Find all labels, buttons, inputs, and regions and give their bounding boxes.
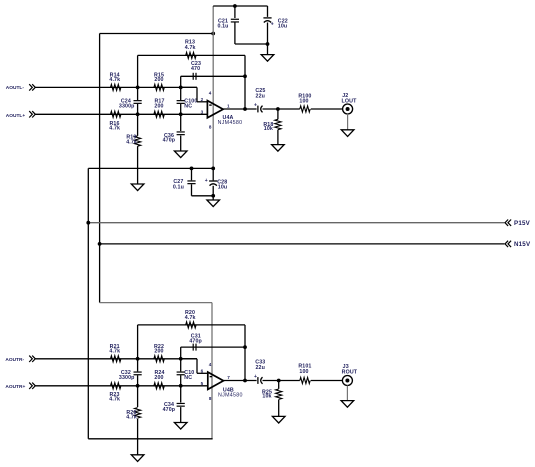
resistor R100: [300, 106, 310, 112]
wire N15V rail: [100, 243, 505, 245]
wire U4A V- rail vertical: [212, 6, 214, 168]
svg-text:2: 2: [201, 97, 204, 102]
wire top rail to N15V: [100, 33, 214, 35]
svg-text:NC: NC: [184, 103, 192, 109]
node D2: [179, 384, 183, 388]
ground C36: [174, 151, 187, 158]
wire J2 ground stub: [347, 114, 349, 130]
resistor R21: [111, 356, 121, 362]
node output feedback: [243, 107, 247, 111]
svg-text:22u: 22u: [256, 93, 266, 99]
node B2: [179, 112, 183, 116]
svg-text:4.7k: 4.7k: [126, 140, 137, 146]
wire pin8 to P15V rail: [88, 167, 213, 169]
node A2: [179, 86, 183, 90]
node R25 tap: [277, 379, 281, 383]
capacitor C100: [180, 87, 182, 100]
svg-text:0.1u: 0.1u: [217, 24, 228, 30]
node feedback C23: [243, 74, 247, 78]
wire pin6 jog: [181, 358, 197, 360]
capacitor C22: [267, 6, 269, 17]
ground J2: [341, 130, 354, 137]
wire C31 feedback: [180, 347, 182, 359]
node C1: [136, 357, 140, 361]
wire U4B output: [224, 380, 257, 382]
svg-text:7: 7: [227, 375, 230, 380]
node feedback C31: [243, 345, 247, 349]
jack J2 LOUT: [343, 104, 353, 114]
svg-text:4.7k: 4.7k: [109, 77, 120, 83]
svg-text:ROUT: ROUT: [342, 369, 358, 375]
wire C27 C28 bottom: [192, 195, 214, 197]
jack J3 ROUT: [342, 376, 352, 386]
svg-text:3: 3: [201, 109, 204, 114]
capacitor C32: [137, 359, 139, 372]
svg-text:470p: 470p: [163, 407, 176, 413]
node D1: [136, 384, 140, 388]
svg-text:AOUTL-: AOUTL-: [6, 85, 25, 91]
wire N15V vertical left: [99, 34, 101, 303]
wire C21 C22 bottom: [235, 43, 268, 45]
node C27 top: [190, 167, 194, 171]
resistor R18: [277, 109, 279, 119]
svg-text:200: 200: [154, 349, 163, 355]
capacitor C33: [257, 377, 259, 384]
wire P15V rail: [88, 222, 504, 224]
resistor R101: [300, 377, 310, 383]
svg-text:0.1u: 0.1u: [173, 184, 184, 190]
svg-text:4.7k: 4.7k: [185, 45, 196, 51]
svg-text:N15V: N15V: [514, 241, 531, 248]
port P15V: [505, 220, 508, 226]
node C28 bottom: [211, 194, 215, 198]
svg-text:NJM4580: NJM4580: [218, 393, 243, 399]
wire R20 feedback: [137, 325, 139, 359]
node C21 top: [233, 4, 237, 8]
wire J3 ground stub: [346, 386, 348, 401]
resistor R26: [137, 386, 139, 407]
resistor R20: [186, 322, 196, 328]
svg-text:10k: 10k: [264, 126, 273, 132]
svg-text:+: +: [205, 178, 208, 184]
ground C27 C28: [207, 200, 220, 207]
svg-text:AOUTR-: AOUTR-: [5, 357, 24, 363]
port N15V: [505, 241, 508, 247]
svg-text:10u: 10u: [278, 23, 288, 29]
ground R19: [131, 184, 144, 191]
capacitor C28: [212, 168, 214, 180]
wire R13 feedback: [137, 55, 139, 87]
node C22 bottom: [266, 42, 270, 46]
svg-text:NC: NC: [184, 375, 192, 381]
svg-text:3300p: 3300p: [119, 375, 135, 381]
svg-text:8: 8: [209, 125, 212, 130]
svg-text:470: 470: [191, 66, 200, 72]
node C2: [179, 357, 183, 361]
capacitor C36: [180, 114, 182, 131]
wire AOUTL+ line: [35, 113, 208, 115]
capacitor C27: [191, 168, 193, 180]
ground J3: [341, 401, 354, 408]
svg-text:P15V: P15V: [514, 220, 531, 227]
wire AOUTR- line: [35, 358, 197, 360]
svg-text:LOUT: LOUT: [342, 99, 358, 105]
svg-text:4.7k: 4.7k: [109, 126, 120, 132]
resistor R14: [111, 84, 121, 90]
ground C34: [174, 423, 187, 430]
svg-text:4.7k: 4.7k: [126, 415, 137, 421]
resistor R15: [154, 84, 164, 90]
resistor R19: [137, 114, 139, 136]
wire C23 feedback: [180, 76, 182, 87]
wire P15V vertical left: [87, 168, 89, 438]
svg-text:8: 8: [209, 396, 212, 401]
resistor R17: [154, 111, 164, 117]
resistor R24: [154, 383, 164, 389]
wire pin2 jog: [181, 86, 197, 88]
node A1: [136, 86, 140, 90]
resistor R22: [154, 356, 164, 362]
node junction rail top: [211, 32, 215, 36]
svg-text:10u: 10u: [218, 185, 228, 191]
node B1: [136, 112, 140, 116]
capacitor C31: [192, 344, 194, 351]
resistor R23: [111, 383, 121, 389]
svg-text:470p: 470p: [163, 137, 176, 143]
op-amp U4A: [207, 101, 223, 118]
svg-text:6: 6: [201, 368, 204, 373]
ground C22: [261, 55, 274, 62]
node output feedback B: [243, 379, 247, 383]
svg-text:AOUTR+: AOUTR+: [5, 384, 25, 390]
svg-text:+: +: [254, 374, 257, 380]
op-amp U4B: [208, 372, 224, 389]
svg-text:1: 1: [227, 103, 230, 108]
svg-text:4.7k: 4.7k: [185, 315, 196, 321]
wire U4A output: [223, 108, 257, 110]
wire P15V to U4B bottom: [88, 438, 212, 440]
svg-text:22u: 22u: [255, 365, 265, 371]
resistor R16: [111, 111, 121, 117]
svg-text:AOUTL+: AOUTL+: [6, 113, 26, 119]
capacitor C24: [137, 87, 139, 100]
wire N15V to U4B: [100, 302, 212, 304]
svg-text:4.7k: 4.7k: [109, 396, 120, 402]
ground R25: [272, 416, 285, 423]
svg-text:470p: 470p: [189, 339, 202, 345]
resistor R13: [186, 52, 196, 58]
node P15V tap: [86, 221, 90, 225]
svg-text:4.7k: 4.7k: [109, 349, 120, 355]
ground R18: [272, 145, 285, 152]
svg-text:4: 4: [209, 90, 212, 95]
capacitor C23: [192, 73, 194, 80]
wire C21 C22 top rail: [213, 5, 267, 7]
capacitor C25: [257, 106, 259, 113]
wire AOUTL- line: [35, 86, 197, 88]
svg-text:200: 200: [154, 375, 163, 381]
svg-text:+: +: [271, 21, 274, 27]
capacitor C21: [234, 6, 236, 18]
wire AOUTR+ line: [35, 385, 208, 387]
svg-text:+: +: [254, 102, 257, 108]
svg-text:NJM4580: NJM4580: [218, 120, 243, 126]
capacitor C10: [180, 359, 182, 372]
ground R26: [131, 455, 144, 462]
svg-text:100: 100: [299, 369, 308, 375]
svg-text:200: 200: [154, 103, 163, 109]
svg-text:100: 100: [299, 98, 308, 104]
capacitor C34: [180, 386, 182, 403]
node C28 top: [211, 167, 215, 171]
svg-text:5: 5: [201, 381, 204, 386]
svg-text:3300p: 3300p: [119, 103, 135, 109]
node R18 tap: [276, 107, 280, 111]
resistor R25: [278, 381, 280, 389]
svg-text:10k: 10k: [262, 394, 271, 400]
svg-text:200: 200: [154, 77, 163, 83]
svg-text:4: 4: [209, 362, 212, 367]
node N15V tap: [98, 242, 102, 246]
